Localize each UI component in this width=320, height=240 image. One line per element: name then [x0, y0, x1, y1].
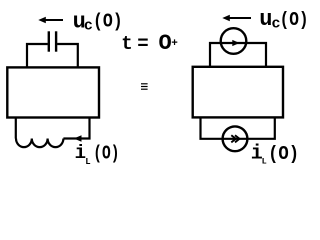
arrow for u_c(0) left [38, 17, 63, 24]
inductor L coil loop [16, 117, 90, 148]
wire: left stub down [15, 117, 17, 139]
capacitor C plates [49, 31, 56, 51]
svg-text:L: L [262, 157, 267, 167]
network box N2 (right) [193, 67, 283, 118]
current source circle (i_L) [223, 126, 248, 151]
label u_c(0) right [259, 7, 308, 32]
svg-text:L: L [85, 157, 90, 167]
label i_L(0) right [251, 143, 299, 167]
wire: right top loop [210, 43, 266, 67]
wire: left capacitor loop right side [57, 44, 78, 67]
arrowhead i_L left [74, 135, 82, 141]
arrow for u_c(0) right [222, 15, 251, 22]
svg-text:+: + [171, 38, 178, 50]
svg-text:i: i [75, 142, 86, 164]
svg-text:c: c [84, 18, 93, 35]
arrowhead inside voltage source [232, 40, 239, 46]
voltage source circle (u_c) [221, 28, 247, 54]
inductor L bumps [16, 139, 63, 148]
label u_c(0) left [73, 9, 123, 34]
wire: coil to right corner with arrow [63, 117, 89, 139]
label i_L(0) left [75, 142, 120, 167]
double chevron inside current source [231, 135, 239, 142]
equivalence symbol [141, 84, 148, 89]
label t = 0+ [121, 31, 178, 56]
svg-text:(O): (O) [93, 10, 123, 32]
svg-text:=: = [137, 33, 148, 55]
svg-text:(O): (O) [280, 9, 307, 31]
svg-text:t: t [121, 33, 132, 55]
svg-text:(O): (O) [93, 143, 119, 165]
svg-text:O: O [159, 31, 172, 56]
wire: left capacitor loop left side [27, 44, 48, 67]
network box N1 (left) [7, 67, 99, 117]
svg-text:(O): (O) [268, 143, 299, 165]
wire: right bottom loop [201, 117, 275, 139]
